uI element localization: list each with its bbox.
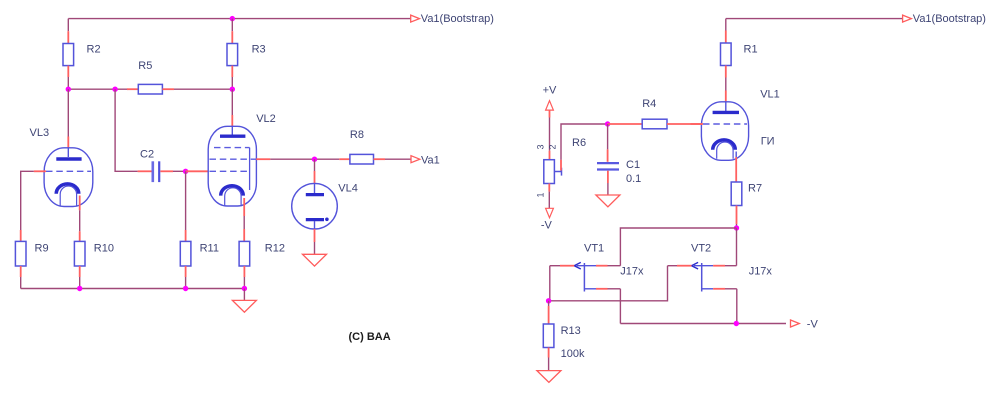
wire R3 to node bbox=[231, 77, 233, 89]
VL4 cathode bbox=[306, 218, 329, 230]
label R1 bbox=[744, 44, 758, 56]
VT1 gate lead bbox=[560, 265, 574, 267]
wire R2 to node bbox=[67, 77, 69, 89]
svg-text:+V: +V bbox=[543, 84, 557, 96]
potentiometer R6 pin1 label bbox=[536, 192, 546, 197]
VL1 anode bbox=[713, 102, 739, 112]
svg-text:C2: C2 bbox=[140, 148, 154, 160]
label -V right bbox=[807, 319, 819, 331]
VL3 anode bbox=[56, 148, 81, 159]
wire rail2 left segment bbox=[68, 88, 127, 90]
wire node to C1 bbox=[607, 124, 609, 162]
svg-text:R6: R6 bbox=[572, 137, 586, 149]
output terminal arrow Va1 bbox=[411, 156, 420, 163]
wire R7 node to VT1 drain bbox=[620, 228, 736, 266]
VL1 cathode bbox=[713, 140, 736, 159]
potentiometer R6 pin2 label bbox=[548, 144, 558, 149]
svg-text:Va1: Va1 bbox=[421, 154, 440, 166]
wire R7 node to VT2 drain bbox=[736, 228, 738, 266]
VT2 gate lead bbox=[677, 265, 692, 267]
wire C1 to ground bbox=[607, 171, 609, 195]
resistor R2 bbox=[63, 31, 74, 77]
wire VL3 grid to R9 bbox=[21, 171, 46, 241]
wire -V rail bbox=[620, 323, 786, 325]
capacitor C2 bbox=[153, 161, 159, 182]
svg-text:Va1(Bootstrap): Va1(Bootstrap) bbox=[421, 13, 494, 25]
wire C2 feed bbox=[115, 89, 151, 171]
wire VL4 to ground bbox=[314, 229, 316, 254]
wire top rail left circuit bbox=[68, 18, 410, 20]
node rail2 C2 tap bbox=[112, 87, 117, 92]
VL2 internal tie bbox=[249, 148, 251, 190]
label VL4 bbox=[338, 182, 358, 194]
wire node to VL4 bbox=[314, 159, 316, 183]
VL1 grid bbox=[703, 123, 747, 125]
label R13 value bbox=[561, 348, 585, 360]
svg-text:ГИ: ГИ bbox=[761, 135, 775, 147]
node top rail above R3 bbox=[230, 16, 235, 21]
wire node to R11 bbox=[185, 171, 187, 241]
label R5 bbox=[138, 60, 152, 72]
wire to ground left bbox=[243, 289, 245, 301]
wire bottom rail bbox=[21, 288, 245, 290]
svg-text:VT1: VT1 bbox=[584, 242, 604, 254]
potentiometer R6 body bbox=[544, 160, 555, 184]
label R12 bbox=[265, 242, 285, 254]
resistor R5 bbox=[127, 84, 174, 94]
resistor R8 bbox=[339, 154, 385, 164]
svg-text:-V: -V bbox=[541, 220, 553, 232]
svg-text:R12: R12 bbox=[265, 242, 285, 254]
resistor R13 bbox=[543, 324, 554, 358]
wire node to VL2 grid bbox=[186, 170, 209, 172]
tube VL2 envelope bbox=[208, 126, 256, 206]
VT1 source lead bbox=[596, 288, 620, 290]
svg-text:VL4: VL4 bbox=[338, 182, 358, 194]
wire VT1 source to rail bbox=[619, 289, 621, 324]
output terminal arrow Va1(Bootstrap) right bbox=[903, 15, 912, 22]
VL2 anode bbox=[220, 126, 245, 136]
node grid feed bbox=[605, 121, 610, 126]
wire VL2 anode feed bbox=[231, 89, 233, 126]
VL3 grid bbox=[46, 170, 91, 172]
label J17x VT2 bbox=[749, 266, 773, 278]
svg-text:VL1: VL1 bbox=[760, 88, 780, 100]
resistor R11 bbox=[180, 241, 191, 277]
output terminal arrow Va1(Bootstrap) left bbox=[411, 15, 420, 22]
wire VL3 cathode to R10 bbox=[79, 196, 81, 242]
label C1 value bbox=[626, 173, 641, 185]
svg-text:3: 3 bbox=[536, 144, 546, 149]
tube VL4 envelope bbox=[292, 183, 338, 229]
wire R11 to bottom rail bbox=[185, 277, 187, 289]
wire node to R13 bbox=[548, 301, 550, 324]
label Va1(Bootstrap) left bbox=[421, 13, 494, 25]
svg-text:R10: R10 bbox=[94, 242, 114, 254]
resistor R3 bbox=[227, 31, 238, 77]
label VT1 bbox=[584, 242, 604, 254]
svg-text:2: 2 bbox=[548, 144, 558, 149]
wire R9 to bottom rail bbox=[20, 277, 22, 289]
VT2 drain lead bbox=[713, 265, 736, 267]
wire R10 to bottom rail bbox=[79, 277, 81, 289]
wire top rail to R2 bbox=[67, 19, 69, 32]
svg-text:-V: -V bbox=[807, 319, 819, 331]
svg-text:R2: R2 bbox=[87, 44, 101, 56]
svg-text:R1: R1 bbox=[744, 44, 758, 56]
label R2 bbox=[87, 44, 101, 56]
label -V pot bbox=[541, 220, 553, 232]
svg-text:0.1: 0.1 bbox=[626, 173, 641, 185]
wire top rail right circuit bbox=[726, 18, 905, 20]
node grid of VL2 bbox=[183, 169, 188, 174]
ground left circuit bbox=[232, 300, 256, 312]
VL2 grid2 bbox=[210, 158, 257, 160]
node bottom rail R10 bbox=[77, 286, 82, 291]
label C1 bbox=[626, 159, 640, 171]
svg-text:R11: R11 bbox=[200, 242, 219, 254]
resistor R1 bbox=[721, 31, 732, 78]
VL2 grid1 bbox=[210, 170, 250, 172]
resistor R7 bbox=[731, 182, 742, 224]
tube VL1 envelope bbox=[701, 102, 748, 161]
label VL1 bbox=[760, 88, 780, 100]
wire R1 to VL1 bbox=[725, 78, 727, 103]
label C2 bbox=[140, 148, 154, 160]
node bottom rail R11 bbox=[183, 286, 188, 291]
label R13 bbox=[561, 325, 581, 337]
label R6 bbox=[572, 137, 586, 149]
label VL2 bbox=[256, 113, 276, 125]
resistor R4 bbox=[608, 119, 703, 129]
VT1 drain lead bbox=[596, 265, 620, 267]
svg-text:100k: 100k bbox=[561, 348, 585, 360]
label VT2 bbox=[691, 242, 711, 254]
wire VT1 gate to node bbox=[550, 266, 560, 301]
label Va1 bbox=[421, 154, 440, 166]
label R8 bbox=[350, 129, 364, 141]
potentiometer R6 wiper bbox=[554, 168, 561, 176]
ground under C1 bbox=[596, 195, 620, 207]
VL2 cathode bbox=[221, 186, 244, 207]
label VL3 bbox=[30, 127, 50, 139]
svg-text:C1: C1 bbox=[626, 159, 640, 171]
wire VL1 grid lead bbox=[691, 123, 703, 125]
svg-text:J17x: J17x bbox=[749, 266, 773, 278]
svg-text:VL3: VL3 bbox=[30, 127, 50, 139]
svg-text:R8: R8 bbox=[350, 129, 364, 141]
wire VL2 cathode to R12 bbox=[243, 198, 245, 241]
svg-text:R3: R3 bbox=[252, 44, 266, 56]
svg-text:(C) BAA: (C) BAA bbox=[349, 331, 391, 343]
wire VL2 out row bbox=[256, 158, 339, 160]
wire rail2 right segment bbox=[174, 88, 232, 90]
label R3 bbox=[252, 44, 266, 56]
svg-text:Va1(Bootstrap): Va1(Bootstrap) bbox=[913, 13, 986, 25]
svg-text:VL2: VL2 bbox=[256, 113, 276, 125]
label J17x VT1 bbox=[620, 266, 644, 278]
node rail2 at R2 bbox=[66, 87, 71, 92]
terminal arrow -V right bbox=[791, 320, 800, 327]
wire VL3 anode feed bbox=[67, 89, 69, 148]
svg-text:R9: R9 bbox=[35, 242, 49, 254]
tube VL3 envelope bbox=[44, 148, 93, 207]
node gate bias bbox=[546, 298, 551, 303]
wire R13 to ground bbox=[548, 358, 550, 371]
svg-text:R4: R4 bbox=[642, 98, 656, 110]
ground under VL4 bbox=[303, 254, 327, 266]
wire +V to R6 pin3 bbox=[549, 110, 551, 160]
node R7 bottom bbox=[734, 225, 739, 230]
svg-text:R13: R13 bbox=[561, 325, 581, 337]
resistor R10 bbox=[74, 241, 85, 277]
wire R8 to terminal bbox=[385, 158, 411, 160]
label GI bbox=[761, 135, 775, 147]
node bottom rail ground bbox=[242, 286, 247, 291]
potentiometer R6 pin3 label bbox=[536, 144, 546, 149]
wire VT2 source to rail bbox=[736, 289, 738, 324]
wire VL1 cathode to R7 bbox=[735, 152, 737, 183]
wire VT2 gate to node bbox=[549, 266, 677, 301]
wire C2 to grid node bbox=[160, 170, 185, 172]
label R9 bbox=[35, 242, 49, 254]
node rail2 at R3 bbox=[230, 87, 235, 92]
svg-text:VT2: VT2 bbox=[691, 242, 711, 254]
node output Va1 bbox=[312, 157, 317, 162]
label R10 bbox=[94, 242, 114, 254]
capacitor C1 bbox=[597, 163, 619, 169]
resistor R9 bbox=[15, 241, 26, 277]
transistor VT2 bbox=[692, 262, 714, 291]
transistor VT1 bbox=[574, 262, 596, 291]
terminal arrow -V pot bbox=[546, 208, 554, 217]
ground under R13 bbox=[537, 371, 561, 383]
VL4 anode bbox=[306, 184, 324, 195]
svg-text:R7: R7 bbox=[748, 183, 762, 195]
wire top rail to R1 bbox=[725, 19, 727, 31]
label R7 bbox=[748, 183, 762, 195]
wire wiper to grid node bbox=[561, 124, 608, 171]
label R4 bbox=[642, 98, 656, 110]
resistor R12 bbox=[239, 241, 250, 277]
label R11 bbox=[200, 242, 219, 254]
svg-text:1: 1 bbox=[536, 192, 546, 197]
wire R12 to bottom rail bbox=[243, 277, 245, 289]
wire R6 pin1 to -V bbox=[548, 184, 550, 209]
label Va1(Bootstrap) right bbox=[913, 13, 986, 25]
VL2 grid3 bbox=[214, 147, 250, 149]
label +V bbox=[543, 84, 557, 96]
svg-text:R5: R5 bbox=[138, 60, 152, 72]
VL3 cathode bbox=[56, 184, 79, 206]
svg-text:J17x: J17x bbox=[620, 266, 644, 278]
wire top rail to R3 bbox=[231, 19, 233, 32]
node -V rail bbox=[734, 321, 739, 326]
VT2 source lead bbox=[713, 288, 737, 290]
terminal arrow +V bbox=[546, 101, 554, 110]
label (C) BAA bbox=[349, 331, 391, 343]
wire R7 to node bbox=[736, 224, 738, 228]
